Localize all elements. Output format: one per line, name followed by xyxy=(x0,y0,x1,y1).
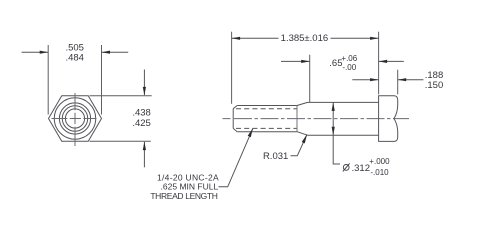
down arrow line .438 xyxy=(143,70,145,96)
extension lines .505/.484 xyxy=(48,45,101,115)
arrowhead dia .312 down xyxy=(332,127,335,136)
dimension line .65 left arrow tail xyxy=(281,60,310,62)
dimension line .505 right arrow xyxy=(102,51,129,53)
dimension line .65 right arrow tail xyxy=(379,60,404,62)
arrowhead .188 right xyxy=(398,78,407,81)
extension lines .438/.425 xyxy=(90,96,152,142)
runout slant top xyxy=(297,102,308,105)
extension line at part left end xyxy=(231,32,233,104)
arrowhead .65 left xyxy=(301,60,310,63)
svg-text:.425: .425 xyxy=(132,118,151,129)
vertical centerline of end view xyxy=(74,93,76,146)
extension line at thread runout end xyxy=(309,55,311,102)
thread section left edge xyxy=(232,109,234,129)
leader R.031 xyxy=(291,135,308,156)
thread minor dashed bottom xyxy=(236,127,297,129)
runout slant bottom xyxy=(297,132,308,136)
extension line at head left face xyxy=(378,32,380,95)
dimension line .188 right arrow tail xyxy=(398,79,424,81)
arrowhead .188 left xyxy=(370,78,379,81)
arrowhead .438 down xyxy=(143,87,146,96)
arrowhead 1.385 left xyxy=(232,37,241,40)
arrowhead dia .312 up xyxy=(332,102,335,111)
svg-text:.438: .438 xyxy=(132,108,151,119)
arrowhead .505 left xyxy=(40,51,49,54)
svg-text:-.010: -.010 xyxy=(370,168,389,177)
svg-text:R.031: R.031 xyxy=(263,151,288,162)
up arrow line .425 xyxy=(143,142,145,168)
body top line xyxy=(308,101,379,103)
svg-text:.150: .150 xyxy=(425,80,444,91)
thread OD bottom line xyxy=(237,131,297,133)
arrowhead 1.385 right xyxy=(370,37,379,40)
counterbore circle xyxy=(59,103,90,134)
diameter .312 dimension line xyxy=(333,102,340,164)
dimension line .505 left arrow xyxy=(22,51,49,53)
dimension line 1.385 left segment xyxy=(232,37,279,39)
svg-text:.484: .484 xyxy=(65,52,84,63)
arrowhead .425 up xyxy=(143,142,146,151)
body bottom line xyxy=(308,134,379,136)
thread major circle xyxy=(62,106,87,131)
arrowhead .65 right xyxy=(379,60,388,63)
diameter symbol of .312 xyxy=(343,163,350,171)
arrowhead .505 right xyxy=(102,51,111,54)
svg-text:1.385±.016: 1.385±.016 xyxy=(281,33,328,44)
dimension line 1.385 right segment xyxy=(331,37,379,39)
thread left chamfer top xyxy=(233,106,237,109)
thread minor dashed top xyxy=(236,108,297,110)
leader 1/4-20 thread note xyxy=(219,129,253,187)
svg-text:+.000: +.000 xyxy=(369,157,390,166)
hex head outline side view xyxy=(379,96,398,142)
hex end view outline xyxy=(49,96,102,142)
arrowhead leader 1/4-20 xyxy=(248,128,253,137)
thread OD top line xyxy=(237,105,297,107)
svg-text:THREAD LENGTH: THREAD LENGTH xyxy=(150,191,217,201)
thread left chamfer bottom xyxy=(233,128,237,131)
side view centerline xyxy=(223,118,410,120)
svg-text:+.06: +.06 xyxy=(341,54,357,63)
bore circle xyxy=(65,109,84,128)
extension line at head right face xyxy=(397,70,399,95)
dimension line .188 left arrow tail xyxy=(352,79,378,81)
svg-text:.312: .312 xyxy=(352,163,371,174)
thread runout boundary xyxy=(296,106,298,132)
horizontal centerline of end view xyxy=(52,118,97,120)
svg-text:-.00: -.00 xyxy=(342,63,356,72)
arrowhead leader R.031 xyxy=(302,134,307,143)
chamfer circle xyxy=(54,98,95,139)
